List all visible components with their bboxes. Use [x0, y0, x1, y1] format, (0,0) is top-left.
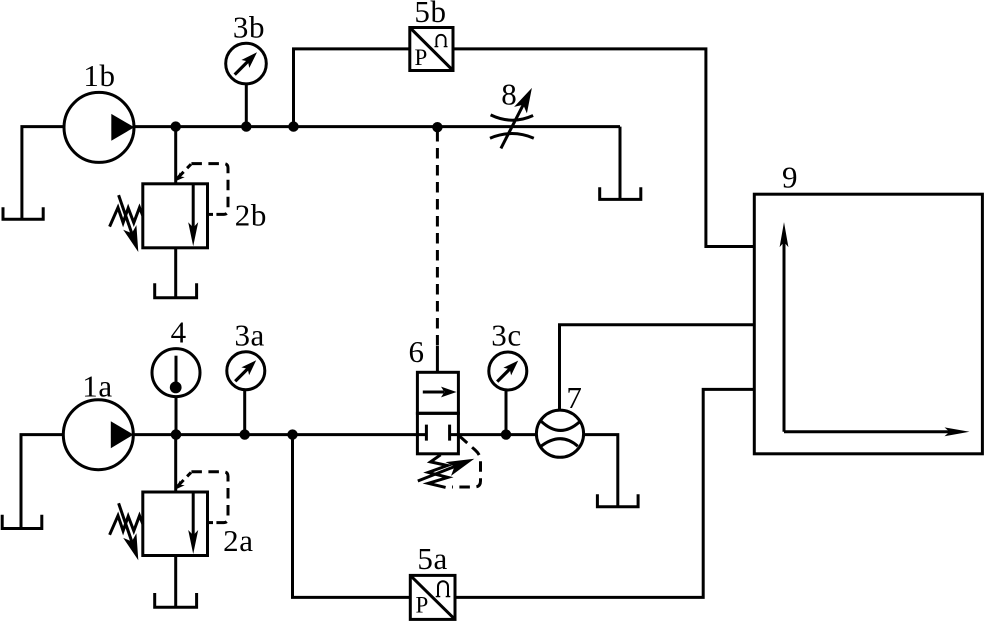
relief valve 2b pilot stub	[208, 213, 214, 216]
pump 1a circle	[63, 400, 133, 470]
relief valve 2a pilot stub	[208, 521, 214, 524]
relief valve 2b pilot arrowhead	[176, 172, 185, 181]
pump 1b triangle	[111, 114, 134, 141]
valve 6 spring	[428, 455, 448, 488]
wire relief 2a drain	[174, 556, 177, 608]
flow meter 7 lower arc	[540, 439, 578, 447]
valve 6 blocked port right	[450, 425, 459, 441]
wire top line to tank T2	[619, 127, 622, 200]
wire 5a branch down	[293, 435, 411, 598]
relief valve 2b spring	[110, 208, 143, 227]
wire top main line P1b	[134, 125, 620, 128]
wire bottom main line P1a	[133, 433, 417, 436]
gauge 4 circle	[152, 349, 200, 397]
gauge 3c needle	[497, 367, 512, 382]
relief valve 2b adjust arrow	[119, 195, 134, 238]
svg-text:3a: 3a	[234, 318, 264, 353]
svg-text:8: 8	[501, 77, 517, 112]
svg-text:4: 4	[171, 315, 187, 350]
tank T1 (pump 1b reservoir)	[3, 207, 43, 219]
flow meter 7 upper arc	[541, 421, 580, 431]
relief valve 2b internal arrow	[192, 184, 195, 228]
tank T3 (below 2b)	[155, 283, 197, 298]
node junction top-2b	[171, 121, 181, 131]
gauge 4 dot	[170, 382, 182, 394]
wire pump-1b suction line	[22, 127, 64, 220]
svg-text:1a: 1a	[82, 369, 112, 404]
wire flow meter to recorder	[560, 325, 755, 410]
gauge 4 needle	[175, 356, 178, 382]
svg-text:3c: 3c	[491, 318, 521, 353]
gauge 3a circle	[227, 352, 265, 390]
pressure transducer 5b diagonal	[410, 28, 453, 71]
svg-text:9: 9	[782, 160, 798, 195]
wire 5a to recorder	[455, 389, 754, 597]
wire gauge 3b stem	[245, 84, 248, 127]
relief valve 2a pilot arrowhead	[176, 480, 185, 489]
wire gauge 3a stem	[243, 390, 246, 435]
valve 6 adjust arrow	[418, 466, 455, 481]
wire valve 6 to flow meter	[458, 433, 536, 436]
throttle valve 8 upper arc	[491, 115, 533, 120]
wire relief 2b drain	[174, 248, 177, 298]
svg-text:5a: 5a	[417, 541, 447, 576]
svg-text:2a: 2a	[223, 523, 253, 558]
svg-text:P: P	[415, 45, 428, 70]
recorder 9 vertical axis	[783, 240, 786, 432]
valve 6 lower box	[417, 413, 458, 454]
node junction bot-4	[171, 429, 181, 439]
flow meter 7 circle	[536, 410, 583, 457]
wire relief 2b inlet	[174, 127, 177, 184]
node junction bot-3a	[240, 429, 250, 439]
svg-text:2b: 2b	[235, 198, 267, 233]
relief valve 2a internal arrow	[192, 492, 195, 536]
svg-text:5b: 5b	[414, 0, 446, 29]
gauge 3b circle	[226, 43, 267, 84]
valve 6 flow arrow	[423, 391, 444, 394]
svg-text:6: 6	[408, 334, 424, 369]
wire relief 2a inlet	[174, 435, 177, 492]
relief valve 2a spring	[110, 516, 143, 535]
relief valve 2a body	[143, 492, 208, 556]
svg-text:P: P	[416, 593, 429, 618]
node junction top-5b	[288, 121, 298, 131]
recorder 9 horizontal axis	[784, 430, 951, 433]
svg-text:1b: 1b	[83, 58, 115, 93]
relief valve 2b pilot dashed line	[177, 164, 191, 178]
tank T2 (top right)	[600, 187, 641, 199]
pump 1b circle	[64, 92, 134, 162]
throttle valve 8 lower arc	[490, 134, 534, 139]
wire flow meter outlet	[584, 435, 618, 507]
valve 6 pilot dashed line	[452, 436, 481, 487]
tank T6 (bottom right)	[597, 494, 638, 507]
wire 5b branch	[294, 49, 410, 127]
gauge 3a needle	[235, 367, 250, 382]
valve 6 upper box	[417, 372, 458, 413]
gauge 3b needle	[235, 59, 251, 75]
relief valve 2b body	[143, 184, 208, 248]
throttle valve 8 arrow	[501, 100, 526, 149]
gauge 3c circle	[489, 352, 527, 390]
node junction top-3b	[241, 121, 251, 131]
pressure transducer 5a diagonal	[410, 575, 455, 619]
wire 5b to recorder	[453, 49, 754, 247]
svg-text:7: 7	[566, 380, 582, 415]
tank T5 (below 2a)	[155, 593, 197, 607]
recorder 9 box	[754, 194, 982, 454]
wire pump-1a suction line	[21, 435, 63, 529]
node junction bot-2a	[171, 429, 181, 439]
pressure transducer 5b ohm symbol	[436, 35, 445, 47]
pressure transducer 5a box	[410, 575, 455, 619]
pump 1a triangle	[111, 421, 134, 448]
node junction top-6	[432, 122, 442, 132]
wire gauge 4 stem	[175, 396, 178, 434]
pressure transducer 5b box	[410, 28, 453, 71]
tank T4 (pump 1a reservoir)	[2, 515, 42, 529]
relief valve 2a adjust arrow	[119, 503, 134, 546]
wire gauge 3c stem	[505, 390, 508, 435]
pilot line from node to valve 6	[436, 131, 439, 346]
node junction bot-5a	[287, 429, 297, 439]
node junction bot-3c	[501, 429, 511, 439]
relief valve 2a pilot dashed line	[177, 472, 191, 486]
pressure transducer 5a ohm symbol	[438, 581, 448, 596]
svg-text:3b: 3b	[233, 10, 265, 45]
valve 6 blocked port left	[417, 425, 426, 441]
